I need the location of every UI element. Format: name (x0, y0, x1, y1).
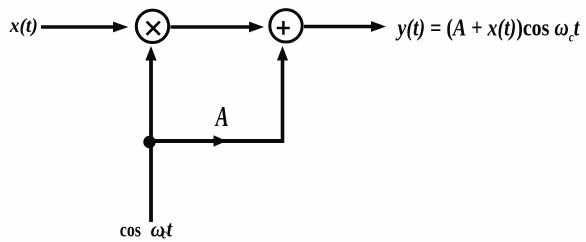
arrowhead up into multiplier (145, 46, 156, 61)
adder U2 circle (270, 10, 302, 42)
svg-text:A: A (214, 102, 229, 133)
arrowhead at output (371, 21, 386, 32)
wire vertical up into adder (281, 58, 285, 143)
node output equation label y(t)=(A+x(t))cos wct (395, 13, 580, 44)
label cos part of carrier (120, 218, 141, 242)
multiplier x symbol (147, 22, 160, 35)
arrowhead into multiplier (113, 22, 129, 33)
svg-text:x(t): x(t) (9, 16, 38, 37)
wire adder to output (304, 25, 372, 28)
arrowhead up into adder (277, 46, 288, 61)
wire branch A horizontal (150, 139, 283, 143)
wire multiplier to adder (171, 25, 251, 29)
svg-text:cos: cos (120, 218, 141, 242)
wire cos carrier vertical into multiplier (149, 58, 153, 222)
wire input x(t) to multiplier (41, 25, 116, 29)
junction dot (143, 136, 155, 148)
label subscript c of carrier (162, 225, 167, 242)
label t of carrier (167, 216, 173, 242)
multiplier U1 circle (136, 10, 168, 42)
arrowhead mid branch (214, 135, 227, 147)
label A on branch (214, 102, 229, 133)
arrowhead into adder (249, 22, 264, 33)
adder plus symbol (277, 21, 290, 35)
label omega of carrier (151, 219, 165, 242)
svg-text:y(t) = (A + x(t))cos ωct: y(t) = (A + x(t))cos ωct (395, 13, 580, 44)
